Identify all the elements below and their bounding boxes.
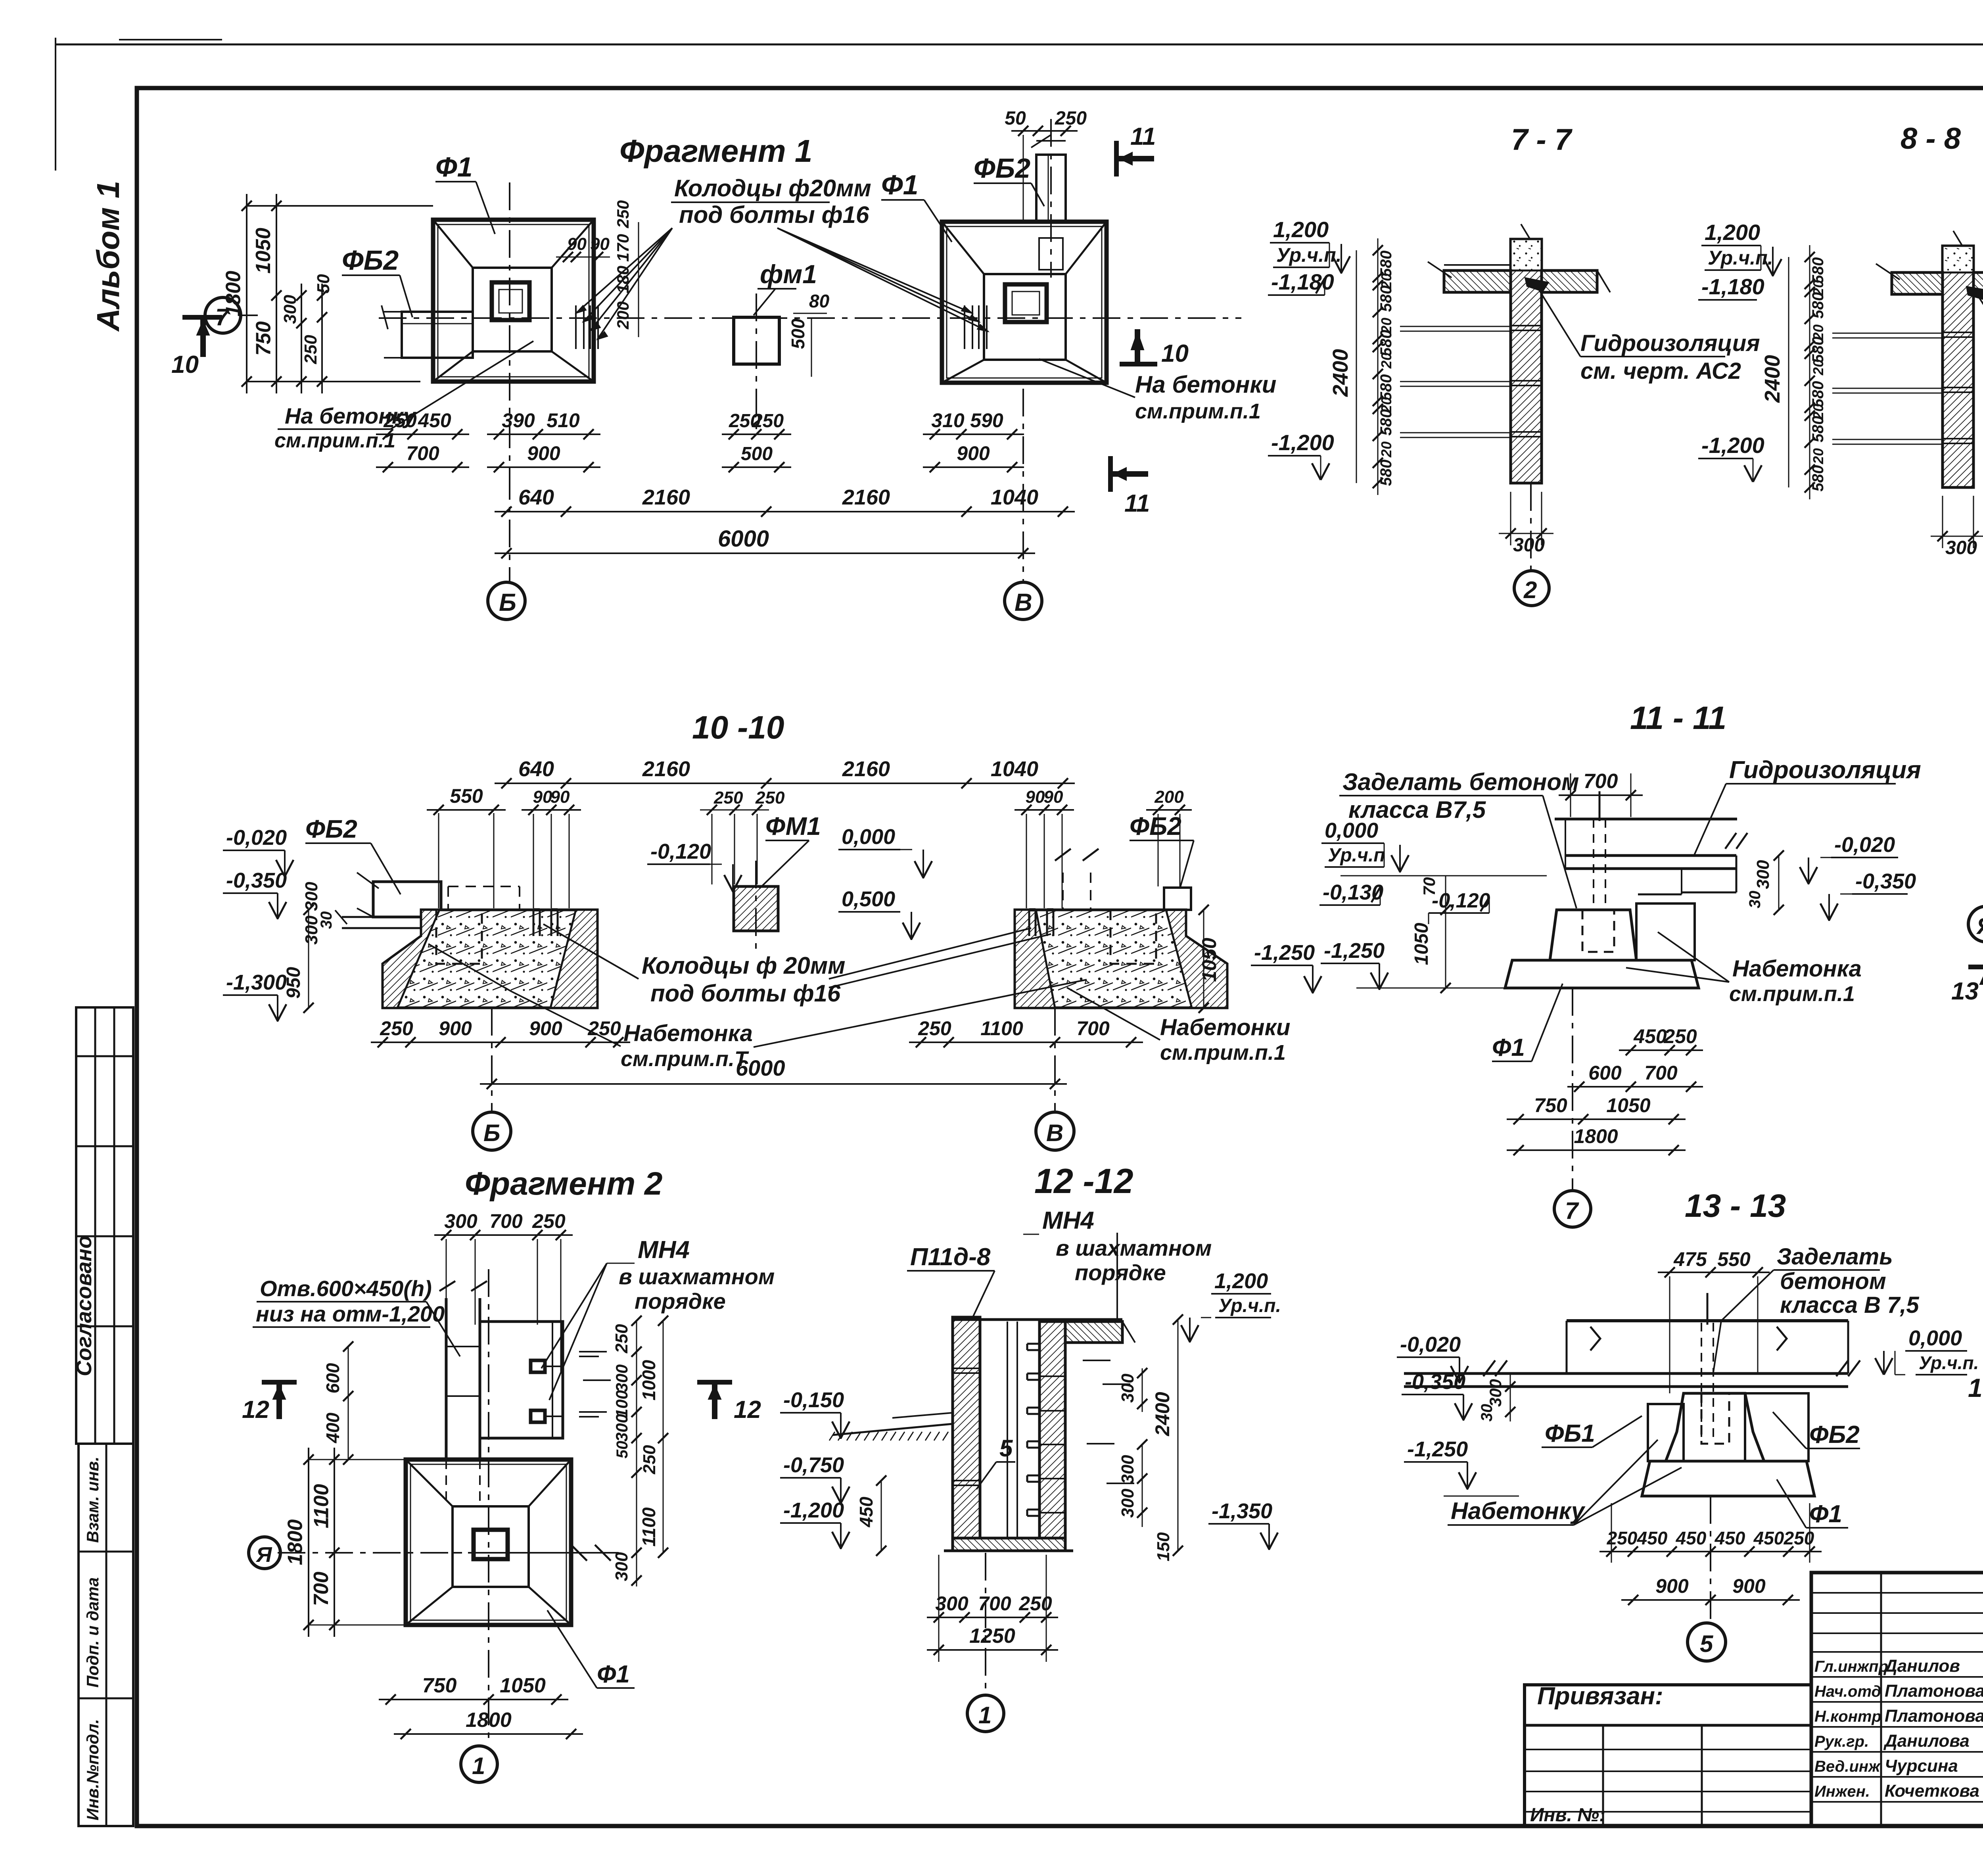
svg-text:2160: 2160 xyxy=(842,485,890,509)
svg-text:475: 475 xyxy=(1673,1248,1707,1270)
svg-text:90: 90 xyxy=(1026,787,1045,807)
svg-text:Взам. инв.: Взам. инв. xyxy=(83,1456,102,1543)
section 10-10 right FB2 block xyxy=(1164,888,1191,910)
section mark 11 bottom xyxy=(1110,456,1150,517)
title block stamp xyxy=(1811,1573,1983,1826)
svg-text:600: 600 xyxy=(322,1363,343,1393)
svg-text:30: 30 xyxy=(1746,891,1764,909)
svg-text:250: 250 xyxy=(640,1445,659,1475)
svg-text:П11д-8: П11д-8 xyxy=(910,1243,991,1271)
fragment 1 label Na betonku xyxy=(274,341,533,452)
svg-text:7 - 7: 7 - 7 xyxy=(1511,123,1573,157)
svg-text:ФБ2: ФБ2 xyxy=(974,153,1030,184)
section 13-13 slab xyxy=(1404,1293,1860,1440)
svg-text:250: 250 xyxy=(713,788,743,808)
svg-text:700: 700 xyxy=(310,1572,333,1606)
svg-text:300: 300 xyxy=(280,295,300,324)
svg-text:Платонова: Платонова xyxy=(1885,1681,1983,1701)
svg-text:450: 450 xyxy=(1633,1025,1667,1047)
svg-text:300: 300 xyxy=(1945,537,1977,558)
svg-text:900: 900 xyxy=(439,1017,472,1040)
svg-text:700: 700 xyxy=(406,442,439,464)
svg-text:1,200: 1,200 xyxy=(1273,217,1329,242)
svg-text:1,200: 1,200 xyxy=(1214,1269,1268,1293)
svg-text:1100: 1100 xyxy=(980,1017,1023,1040)
section 10-10 FM1 block xyxy=(734,861,778,956)
svg-text:бетоном: бетоном xyxy=(1780,1268,1886,1294)
svg-text:-1,180: -1,180 xyxy=(1701,274,1764,299)
svg-text:Ур.ч.п.: Ур.ч.п. xyxy=(1218,1295,1281,1316)
svg-text:300: 300 xyxy=(1118,1455,1137,1484)
fragment 2 title xyxy=(465,1166,663,1202)
svg-text:250: 250 xyxy=(1663,1025,1697,1047)
svg-text:30: 30 xyxy=(1478,1404,1496,1422)
svg-text:1050: 1050 xyxy=(1198,938,1220,982)
svg-text:-1,250: -1,250 xyxy=(1324,939,1385,963)
svg-text:580: 580 xyxy=(1377,251,1395,277)
section 11-11 title xyxy=(1630,700,1726,736)
section 10-10 bottom dims xyxy=(371,1017,1143,1089)
section 7-7 elevations xyxy=(1268,217,1350,480)
svg-text:1040: 1040 xyxy=(991,485,1038,509)
section 12-12 MN4 label xyxy=(1023,1207,1212,1333)
svg-text:-0,130: -0,130 xyxy=(1323,880,1383,904)
svg-text:-1,300: -1,300 xyxy=(226,971,287,994)
section 13-13 labels FB2 F1 xyxy=(1773,1412,1860,1528)
footing V dims below xyxy=(923,389,1024,582)
svg-text:1050: 1050 xyxy=(1411,923,1432,965)
svg-text:580: 580 xyxy=(1809,337,1827,363)
footing V top dims 50 250 xyxy=(1005,108,1087,222)
section 11-11 footing xyxy=(1505,903,1699,988)
svg-text:Набетонки: Набетонки xyxy=(1160,1015,1290,1040)
section 12-12 walls xyxy=(944,1317,1135,1551)
svg-text:300: 300 xyxy=(1118,1373,1137,1403)
svg-text:250: 250 xyxy=(614,200,632,228)
svg-text:1: 1 xyxy=(472,1753,485,1779)
svg-text:300: 300 xyxy=(1118,1489,1137,1518)
svg-text:ФБ2: ФБ2 xyxy=(1130,812,1181,840)
svg-text:13: 13 xyxy=(1951,978,1979,1005)
svg-text:Инв. №:: Инв. №: xyxy=(1530,1805,1605,1826)
svg-text:Подп. и дата: Подп. и дата xyxy=(83,1577,102,1688)
section 13-13 elevation 0.000 xyxy=(1875,1326,1979,1375)
section 12-12 elevations left xyxy=(780,1388,886,1556)
svg-text:300: 300 xyxy=(612,1552,631,1581)
svg-text:1: 1 xyxy=(978,1702,991,1728)
svg-text:300: 300 xyxy=(612,1364,631,1392)
section 10-10 left footing xyxy=(383,886,597,1008)
fragment 1 label FB2 xyxy=(342,245,412,317)
svg-text:см. черт. АС2: см. черт. АС2 xyxy=(1580,358,1741,384)
svg-text:550: 550 xyxy=(450,785,483,807)
section mark 10 left xyxy=(171,317,222,378)
svg-text:500: 500 xyxy=(741,443,773,464)
svg-text:13 - 13: 13 - 13 xyxy=(1685,1188,1786,1224)
svg-text:450: 450 xyxy=(1676,1528,1707,1548)
fragment 2 bottom dims xyxy=(379,1674,583,1739)
svg-text:Н.контр: Н.контр xyxy=(1814,1708,1881,1725)
section mark 11 top xyxy=(1116,123,1156,176)
svg-text:Рук.гр.: Рук.гр. xyxy=(1814,1733,1869,1750)
svg-text:1100: 1100 xyxy=(639,1507,659,1546)
svg-text:Альбом 1: Альбом 1 xyxy=(90,181,126,332)
svg-text:300: 300 xyxy=(612,1414,631,1442)
section 8-8 elevations xyxy=(1698,220,1782,482)
svg-text:11: 11 xyxy=(1124,490,1150,517)
fragment 1 footing B plan xyxy=(433,220,594,382)
svg-text:Гидроизоляция: Гидроизоляция xyxy=(1729,756,1921,784)
svg-text:под болты ф16: под болты ф16 xyxy=(650,980,841,1007)
fragment 1 label F1 xyxy=(435,152,495,234)
section 8-8 gidroizolyatsiya label xyxy=(1966,286,1983,388)
svg-text:700: 700 xyxy=(489,1210,523,1232)
svg-text:250: 250 xyxy=(380,1017,413,1040)
svg-text:750: 750 xyxy=(1534,1094,1567,1116)
svg-text:Колодцы ф20мм: Колодцы ф20мм xyxy=(674,175,871,201)
svg-text:20: 20 xyxy=(1378,353,1394,369)
svg-text:300: 300 xyxy=(935,1592,968,1615)
section 11-11 floor slab xyxy=(1555,819,1747,894)
svg-text:см.прим.п.1: см.прим.п.1 xyxy=(1135,399,1261,423)
svg-text:-0,150: -0,150 xyxy=(783,1388,844,1412)
svg-text:2400: 2400 xyxy=(1151,1392,1174,1436)
svg-text:170: 170 xyxy=(614,234,632,262)
fragment 2 axes xyxy=(278,1269,619,1744)
svg-text:-0,350: -0,350 xyxy=(1405,1370,1465,1394)
section 10-10 label kolodtsy xyxy=(543,924,1051,1007)
section 13-13 bottom dims xyxy=(1599,1503,1822,1605)
section 10-10 right footing xyxy=(1015,849,1227,1008)
axis circle 5 xyxy=(1688,1496,1726,1661)
svg-text:250: 250 xyxy=(755,788,785,808)
svg-text:11 - 11: 11 - 11 xyxy=(1630,700,1726,736)
svg-text:В: В xyxy=(1015,589,1032,616)
svg-text:-1,200: -1,200 xyxy=(783,1498,844,1522)
fragment 1 title xyxy=(619,133,812,169)
svg-text:МН4: МН4 xyxy=(1042,1207,1094,1234)
axis circle 2 xyxy=(1514,483,1549,606)
svg-text:МН4: МН4 xyxy=(638,1236,690,1264)
svg-text:580: 580 xyxy=(1809,257,1827,284)
svg-text:450: 450 xyxy=(1753,1528,1784,1548)
outer sheet border left stub xyxy=(56,38,222,171)
svg-text:580: 580 xyxy=(1809,381,1827,408)
section 12-12 right dims xyxy=(1083,1314,1278,1561)
svg-text:-1,200: -1,200 xyxy=(1701,433,1764,458)
section 12-12 label P11d-8 xyxy=(907,1243,995,1320)
section marks 12 xyxy=(242,1382,761,1423)
svg-text:450: 450 xyxy=(1637,1528,1668,1548)
fragment 2 MN4 label xyxy=(541,1236,775,1400)
footing FM1 plan xyxy=(722,291,830,472)
section 11-11 label zadelat xyxy=(1339,769,1579,908)
svg-text:Ф1: Ф1 xyxy=(1492,1034,1525,1061)
svg-text:Я: Я xyxy=(255,1543,272,1567)
svg-text:Согласовано: Согласовано xyxy=(72,1235,96,1376)
svg-text:Я: Я xyxy=(1976,913,1983,939)
section 13-13 label zadelat xyxy=(1713,1244,1919,1372)
section 7-7 bottom dim xyxy=(1499,492,1553,556)
svg-text:8 - 8: 8 - 8 xyxy=(1901,122,1961,155)
section 7-7 floor slab xyxy=(1428,262,1610,292)
svg-text:10: 10 xyxy=(171,351,199,378)
svg-text:580: 580 xyxy=(1377,330,1395,357)
svg-text:90: 90 xyxy=(1044,787,1063,807)
svg-text:250: 250 xyxy=(532,1210,566,1232)
svg-text:250: 250 xyxy=(918,1017,951,1040)
svg-text:-0,350: -0,350 xyxy=(1855,869,1916,893)
svg-text:590: 590 xyxy=(970,409,1003,432)
fragment 1 main dim chain xyxy=(495,485,1075,558)
svg-text:Привязан:: Привязан: xyxy=(1537,1682,1663,1710)
svg-text:20: 20 xyxy=(1810,448,1826,464)
svg-text:580: 580 xyxy=(1377,460,1395,486)
fragment 1 axis lines xyxy=(379,182,1241,582)
section 11-11 dim 700 xyxy=(1559,770,1643,817)
svg-text:-0,750: -0,750 xyxy=(783,1453,844,1477)
svg-text:порядке: порядке xyxy=(1075,1260,1166,1285)
svg-text:700: 700 xyxy=(978,1592,1011,1615)
section 12-12 ground left xyxy=(829,1413,953,1441)
svg-text:750: 750 xyxy=(422,1674,457,1697)
svg-text:Данилов: Данилов xyxy=(1883,1656,1960,1676)
fragment 2 footing plan xyxy=(406,1460,571,1625)
svg-text:2400: 2400 xyxy=(1329,349,1352,397)
svg-text:200: 200 xyxy=(614,301,632,330)
section mark 13 up xyxy=(1951,967,1983,1005)
svg-text:-0,020: -0,020 xyxy=(226,826,287,850)
svg-text:Ур.ч.п.: Ур.ч.п. xyxy=(1708,247,1773,269)
svg-text:510: 510 xyxy=(547,409,580,432)
svg-text:500: 500 xyxy=(788,318,808,349)
axis circle B xyxy=(488,582,525,620)
svg-text:Отв.600×450(h): Отв.600×450(h) xyxy=(260,1276,432,1301)
svg-text:см.прим.п.1: см.прим.п.1 xyxy=(1729,982,1855,1006)
svg-text:-1,350: -1,350 xyxy=(1212,1499,1272,1523)
svg-text:30: 30 xyxy=(318,911,335,929)
svg-text:6000: 6000 xyxy=(736,1055,785,1080)
section 8-8 floor slab xyxy=(1876,264,1983,294)
svg-text:-0,350: -0,350 xyxy=(226,869,287,892)
svg-text:10 -10: 10 -10 xyxy=(692,710,784,746)
svg-text:Ур.ч.п: Ур.ч.п xyxy=(1328,845,1385,866)
album label xyxy=(90,181,126,332)
svg-text:250: 250 xyxy=(612,1324,631,1354)
fragment 1 dim chains below footing B xyxy=(376,409,600,472)
svg-text:300: 300 xyxy=(1753,860,1773,889)
svg-text:580: 580 xyxy=(1809,416,1827,443)
svg-text:600: 600 xyxy=(1588,1062,1622,1084)
svg-text:12: 12 xyxy=(242,1396,269,1423)
svg-text:ФБ1: ФБ1 xyxy=(1545,1420,1595,1447)
svg-text:250: 250 xyxy=(1018,1592,1052,1615)
section 10-10 elevations left xyxy=(223,826,335,1022)
section 10-10 elevation marks xyxy=(647,825,1321,1013)
svg-text:50: 50 xyxy=(314,274,333,293)
section 11-11 elevations right xyxy=(1746,833,1916,921)
section 10-10 top dim chains xyxy=(427,757,1192,908)
svg-text:-1,250: -1,250 xyxy=(1254,941,1315,965)
svg-text:20: 20 xyxy=(1378,441,1394,458)
svg-text:200: 200 xyxy=(1154,787,1184,807)
svg-text:На бетонки: На бетонки xyxy=(1135,371,1276,398)
svg-text:Чурсина: Чурсина xyxy=(1885,1756,1958,1776)
svg-text:Ф1: Ф1 xyxy=(435,152,473,182)
svg-text:900: 900 xyxy=(957,442,990,464)
svg-text:20: 20 xyxy=(1810,359,1826,376)
svg-text:12 -12: 12 -12 xyxy=(1034,1161,1133,1201)
svg-text:0,000: 0,000 xyxy=(1908,1326,1962,1350)
svg-text:70: 70 xyxy=(1420,877,1438,896)
svg-text:900: 900 xyxy=(529,1017,562,1040)
axis circle 1 fragment 2 xyxy=(461,1746,497,1782)
axis circles B V bottom xyxy=(473,1008,1074,1150)
section 11-11 bottom dims xyxy=(1507,1025,1703,1155)
svg-text:250: 250 xyxy=(752,410,784,432)
section 10-10 label nabetonka xyxy=(428,944,1087,1071)
svg-text:5: 5 xyxy=(999,1435,1013,1462)
svg-text:1050: 1050 xyxy=(1606,1094,1650,1116)
svg-text:250: 250 xyxy=(1055,108,1087,129)
svg-text:-1,250: -1,250 xyxy=(1407,1437,1468,1461)
general note xyxy=(1968,1373,1983,1439)
svg-text:90: 90 xyxy=(590,234,610,254)
svg-text:1,200: 1,200 xyxy=(1705,220,1760,245)
svg-text:640: 640 xyxy=(518,485,554,509)
svg-text:-0,020: -0,020 xyxy=(1834,833,1895,857)
fragment 1 bolt wells footing B xyxy=(556,234,610,349)
axis circle 1 section 12-12 xyxy=(967,1553,1004,1732)
svg-text:ФМ1: ФМ1 xyxy=(765,812,821,840)
svg-text:см.прим.п.1: см.прим.п.1 xyxy=(1160,1041,1286,1065)
svg-text:Фрагмент 1: Фрагмент 1 xyxy=(619,133,812,169)
section 12-12 elevation 1.200 xyxy=(1181,1269,1281,1343)
axis circle V xyxy=(1005,582,1042,620)
svg-text:50: 50 xyxy=(1005,108,1026,129)
svg-text:1800: 1800 xyxy=(466,1709,512,1732)
section 12-12 title xyxy=(1034,1161,1133,1201)
svg-text:фм1: фм1 xyxy=(760,259,817,289)
svg-text:Колодцы ф 20мм: Колодцы ф 20мм xyxy=(642,952,845,979)
label kolodtsy under bolts xyxy=(576,175,988,340)
svg-text:900: 900 xyxy=(1655,1575,1689,1597)
fragment 2 top dims xyxy=(434,1210,573,1372)
section 11-11 label nabetonka xyxy=(1626,932,1862,1006)
section 12-12 ladder ties xyxy=(1027,1344,1039,1516)
svg-text:180: 180 xyxy=(614,266,632,293)
svg-text:580: 580 xyxy=(1809,465,1827,492)
section 8-8 wall xyxy=(1832,231,1973,487)
svg-text:250: 250 xyxy=(383,409,417,432)
section 7-7 title xyxy=(1511,123,1573,157)
svg-text:580: 580 xyxy=(1377,374,1395,401)
svg-text:1800: 1800 xyxy=(222,271,245,317)
section 13-13 title xyxy=(1685,1188,1786,1224)
fragment 2 right dims xyxy=(612,1316,668,1586)
section 8-8 title xyxy=(1901,122,1961,155)
svg-text:80: 80 xyxy=(809,291,830,311)
svg-text:Инв.№подл.: Инв.№подл. xyxy=(83,1719,102,1820)
svg-text:12: 12 xyxy=(734,1396,761,1423)
axis circle A right xyxy=(1968,906,1983,942)
section 13-13 label FB1 xyxy=(1542,1416,1642,1447)
svg-text:низ на отм-1,200: низ на отм-1,200 xyxy=(256,1301,445,1326)
fragment 1 footing V plan xyxy=(942,222,1107,383)
section 11-11 label F1 xyxy=(1492,984,1563,1061)
svg-text:10: 10 xyxy=(1161,340,1189,367)
svg-text:в шахматном: в шахматном xyxy=(619,1264,775,1289)
section 10-10 labels xyxy=(305,812,1194,894)
section 10-10 left FB2 wall block xyxy=(335,873,441,928)
svg-text:Гл.инжпр: Гл.инжпр xyxy=(1814,1658,1888,1675)
svg-text:1250: 1250 xyxy=(969,1625,1015,1648)
svg-text:под болты ф16: под болты ф16 xyxy=(679,201,869,228)
svg-text:Ф1: Ф1 xyxy=(1809,1500,1842,1528)
section 13-13 label nabetonku xyxy=(1448,1440,1682,1525)
svg-text:2400: 2400 xyxy=(1761,355,1784,403)
title block signatures xyxy=(1814,1655,1983,1801)
outer sheet border top xyxy=(56,44,1983,46)
svg-text:2160: 2160 xyxy=(642,485,690,509)
svg-text:ФБ2: ФБ2 xyxy=(305,815,357,843)
section mark 10 right xyxy=(1120,329,1189,367)
axis circle A xyxy=(249,1537,301,1569)
fragment 2 left dims xyxy=(284,1341,406,1637)
svg-text:2: 2 xyxy=(1523,577,1537,603)
svg-text:0,000: 0,000 xyxy=(842,825,895,849)
svg-text:см.прим.п.Т: см.прим.п.Т xyxy=(621,1047,749,1071)
fragment 2 wall plan xyxy=(439,1281,611,1460)
section 13-13 elevations left xyxy=(1397,1333,1519,1496)
svg-text:750: 750 xyxy=(252,321,275,356)
fragment 1 FB2 block top on footing V xyxy=(1031,119,1066,278)
fragment 1 FB2 wall block left xyxy=(382,305,473,358)
svg-text:11: 11 xyxy=(1130,123,1156,150)
svg-text:300: 300 xyxy=(1513,535,1545,556)
svg-text:250: 250 xyxy=(301,335,320,364)
svg-text:Ф1: Ф1 xyxy=(597,1661,630,1688)
svg-text:-1,200: -1,200 xyxy=(1271,430,1334,455)
svg-text:300: 300 xyxy=(444,1210,478,1232)
privyazan box xyxy=(1525,1682,1811,1826)
svg-text:1050: 1050 xyxy=(500,1674,546,1697)
section 10-10 title xyxy=(692,710,784,746)
svg-text:Вед.инж: Вед.инж xyxy=(1814,1758,1881,1775)
svg-text:-0,020: -0,020 xyxy=(1400,1333,1461,1356)
svg-text:390: 390 xyxy=(502,409,535,432)
svg-text:Нач.отд: Нач.отд xyxy=(1814,1683,1881,1700)
svg-text:Данилова: Данилова xyxy=(1883,1731,1970,1751)
svg-text:90: 90 xyxy=(567,234,587,254)
label Na betonki on V xyxy=(1039,359,1276,423)
section 7-7 wall xyxy=(1400,224,1542,483)
svg-text:1. Все набетонки выполнить: 1. Все набетонки выполнить из бето- xyxy=(1968,1373,1983,1402)
svg-text:1040: 1040 xyxy=(991,757,1038,781)
svg-text:Ур.ч.п.: Ур.ч.п. xyxy=(1276,244,1342,266)
left margin inventory table xyxy=(79,1444,133,1826)
svg-text:700: 700 xyxy=(1076,1017,1110,1040)
svg-text:ФБ2: ФБ2 xyxy=(1809,1421,1860,1448)
svg-text:580: 580 xyxy=(1377,409,1395,436)
svg-text:ФБ2: ФБ2 xyxy=(342,245,399,276)
svg-text:100: 100 xyxy=(612,1390,631,1418)
svg-text:450: 450 xyxy=(1715,1528,1745,1548)
svg-text:Заделать: Заделать xyxy=(1777,1244,1893,1270)
section 7-7 gidroizolyatsiya label xyxy=(1525,278,1760,384)
fragment 1 small dims 200 180 170 250 column xyxy=(614,200,639,337)
svg-text:150: 150 xyxy=(1154,1532,1173,1561)
